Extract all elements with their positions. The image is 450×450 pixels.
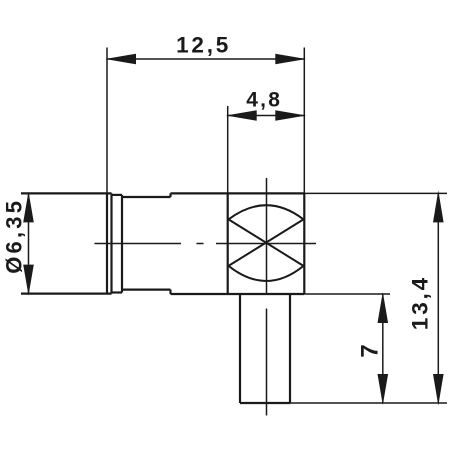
arrow Ø6,35 down (23, 265, 34, 296)
flats symbol bottom arc (229, 266, 304, 281)
dimension line Ø6,35 (28, 193, 30, 293)
arrow 7 up (378, 292, 389, 323)
extension line top for 13,4 (304, 192, 447, 194)
dimension line 13,4 (437, 193, 439, 403)
dimension line 4,8 (228, 115, 305, 117)
arrow Ø6,35 up (23, 192, 34, 223)
barrel right section + square flange top edge (171, 192, 305, 194)
stub bottom edge (240, 402, 290, 404)
arrow 13,4 down (433, 374, 444, 406)
vertical centerline upper segment (266, 178, 268, 294)
flats symbol diagonal 2 (229, 219, 304, 266)
stub left edge (239, 294, 241, 403)
horizontal centerline dot (197, 243, 204, 245)
vertical centerline lower segment (266, 309, 268, 416)
extension line right for 12,5 and 4,8 (303, 48, 305, 194)
barrel step bottom (169, 290, 171, 294)
barrel groove band right edge (121, 195, 123, 293)
flats symbol top arc (229, 205, 304, 219)
svg-text:Ø6,35: Ø6,35 (1, 198, 26, 274)
svg-text:4,8: 4,8 (246, 89, 282, 112)
arrow 13,4 up (433, 190, 444, 222)
extension line left for 12,5 (106, 48, 108, 194)
barrel front rim left edge (106, 193, 108, 293)
stub right edge (289, 294, 291, 403)
svg-text:7: 7 (356, 344, 383, 357)
arrow 4,8 right (275, 110, 306, 121)
barrel step top (169, 193, 171, 197)
barrel mid section bottom edge (122, 289, 171, 291)
barrel groove band top edge (112, 194, 123, 196)
arrow 7 down (378, 374, 389, 405)
arrow 4,8 left (226, 110, 257, 121)
extension line left for 4,8 (227, 106, 229, 193)
svg-text:13,4: 13,4 (408, 275, 433, 330)
barrel mid section top edge (122, 196, 171, 198)
square flange right edge (303, 193, 305, 294)
extension line top for 7 (304, 293, 390, 295)
connector barrel section A bottom edge (with Ø6,35 extension) (21, 293, 112, 295)
dimension line 12,5 (107, 58, 304, 60)
horizontal centerline dash 2 (216, 243, 316, 245)
arrow 12,5 right (275, 54, 306, 65)
barrel right section + square flange bottom edge (171, 293, 305, 295)
arrow 12,5 left (105, 54, 136, 65)
extension line bottom for 13,4 and 7 (290, 402, 447, 404)
square flange left edge (227, 193, 229, 294)
flats symbol diagonal 1 (229, 219, 304, 266)
barrel groove band bottom edge (112, 291, 123, 293)
dimension line 7 (382, 294, 384, 403)
barrel front rim right edge (110, 193, 112, 293)
horizontal centerline dash 1 (95, 243, 182, 245)
connector barrel section A top edge (with Ø6,35 extension) (21, 192, 112, 194)
svg-text:12,5: 12,5 (176, 32, 231, 57)
